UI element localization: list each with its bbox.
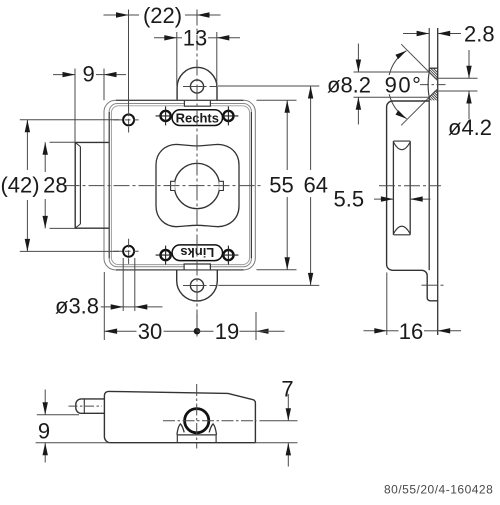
svg-text:2.8: 2.8 xyxy=(464,22,495,47)
svg-text:(42): (42) xyxy=(0,173,39,198)
svg-text:(22): (22) xyxy=(143,3,182,28)
svg-text:ø4.2: ø4.2 xyxy=(448,115,492,140)
svg-text:55: 55 xyxy=(269,173,293,198)
svg-text:80/55/20/4-160428: 80/55/20/4-160428 xyxy=(384,483,493,497)
svg-text:30: 30 xyxy=(138,319,162,344)
svg-text:19: 19 xyxy=(215,319,239,344)
svg-text:5.5: 5.5 xyxy=(334,187,365,212)
svg-text:9: 9 xyxy=(82,62,94,87)
svg-text:9: 9 xyxy=(38,418,50,443)
svg-text:7: 7 xyxy=(281,377,293,402)
svg-text:64: 64 xyxy=(304,173,328,198)
svg-text:28: 28 xyxy=(43,173,67,198)
svg-text:16: 16 xyxy=(399,319,423,344)
svg-text:90°: 90° xyxy=(385,73,423,98)
svg-text:13: 13 xyxy=(183,25,207,50)
svg-text:ø8.2: ø8.2 xyxy=(327,73,371,98)
svg-text:ø3.8: ø3.8 xyxy=(55,294,99,319)
